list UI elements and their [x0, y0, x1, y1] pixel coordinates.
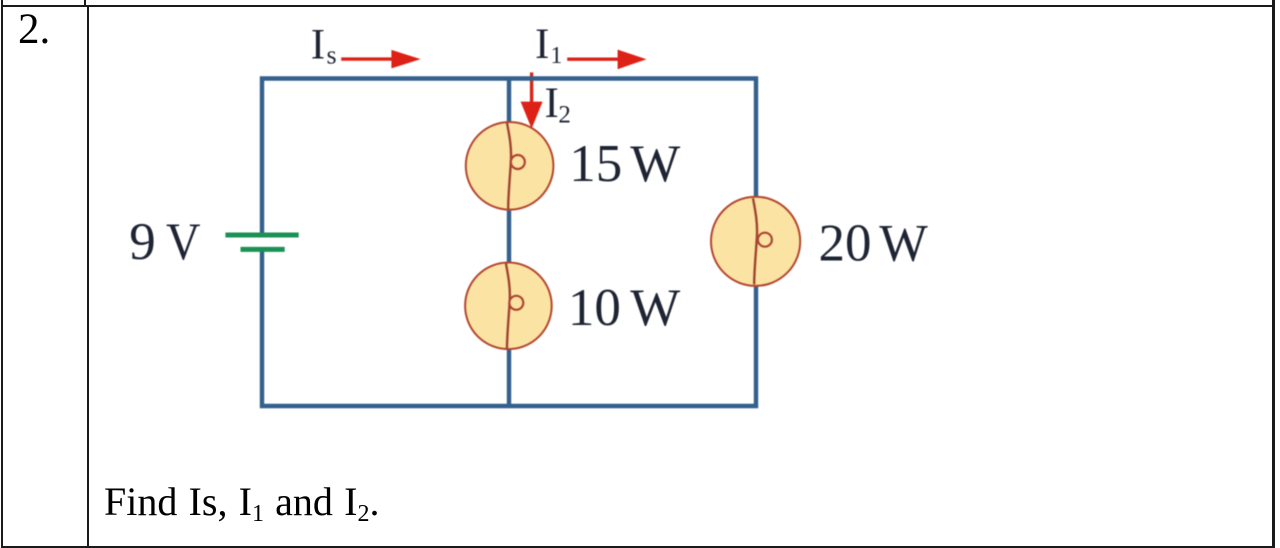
lamp 15 W contact circle [511, 155, 525, 169]
svg-text:V: V [166, 213, 201, 271]
battery V1 short plate [241, 247, 285, 252]
lamp 15 W body [466, 122, 554, 210]
arrow I2 tail [530, 72, 533, 102]
svg-text:W: W [630, 279, 680, 337]
svg-text:I1: I1 [535, 21, 562, 69]
wire: middle branch [507, 79, 511, 407]
lamp 20 W filament [753, 198, 757, 284]
arrow I1 tail [567, 58, 618, 61]
svg-text:W: W [630, 135, 680, 193]
svg-text:15: 15 [569, 135, 622, 193]
arrow I1 head [618, 50, 647, 70]
table top rule [1, 5, 1274, 7]
table bottom rule [1, 546, 1274, 548]
lamp 10 W body [465, 263, 552, 350]
svg-text:10: 10 [568, 279, 621, 337]
svg-text:20: 20 [819, 215, 872, 273]
lamp 15 W filament [507, 123, 511, 209]
column divider stub above top rule [84, 0, 86, 5]
battery V1 long plate [225, 233, 298, 238]
question text: Find Is, I1 and I2. [104, 482, 379, 522]
arrow Is head [391, 50, 420, 69]
svg-text:I2: I2 [545, 80, 571, 128]
lamp 10 W filament [506, 263, 510, 349]
lamp 10 W contact circle [509, 296, 523, 310]
table right border [1272, 0, 1275, 548]
svg-text:9: 9 [129, 213, 156, 271]
lamp 20 W contact circle [758, 233, 772, 247]
arrow I2 head [521, 102, 543, 129]
lamp 20 W body [711, 197, 800, 286]
arrow Is tail [341, 57, 392, 60]
column divider [87, 7, 89, 546]
cell number 2. [18, 5, 50, 54]
svg-text:Is: Is [311, 21, 337, 69]
table left border [1, 0, 3, 548]
svg-text:W: W [879, 215, 928, 273]
wire: outer loop (left wire split by battery) [262, 79, 756, 407]
